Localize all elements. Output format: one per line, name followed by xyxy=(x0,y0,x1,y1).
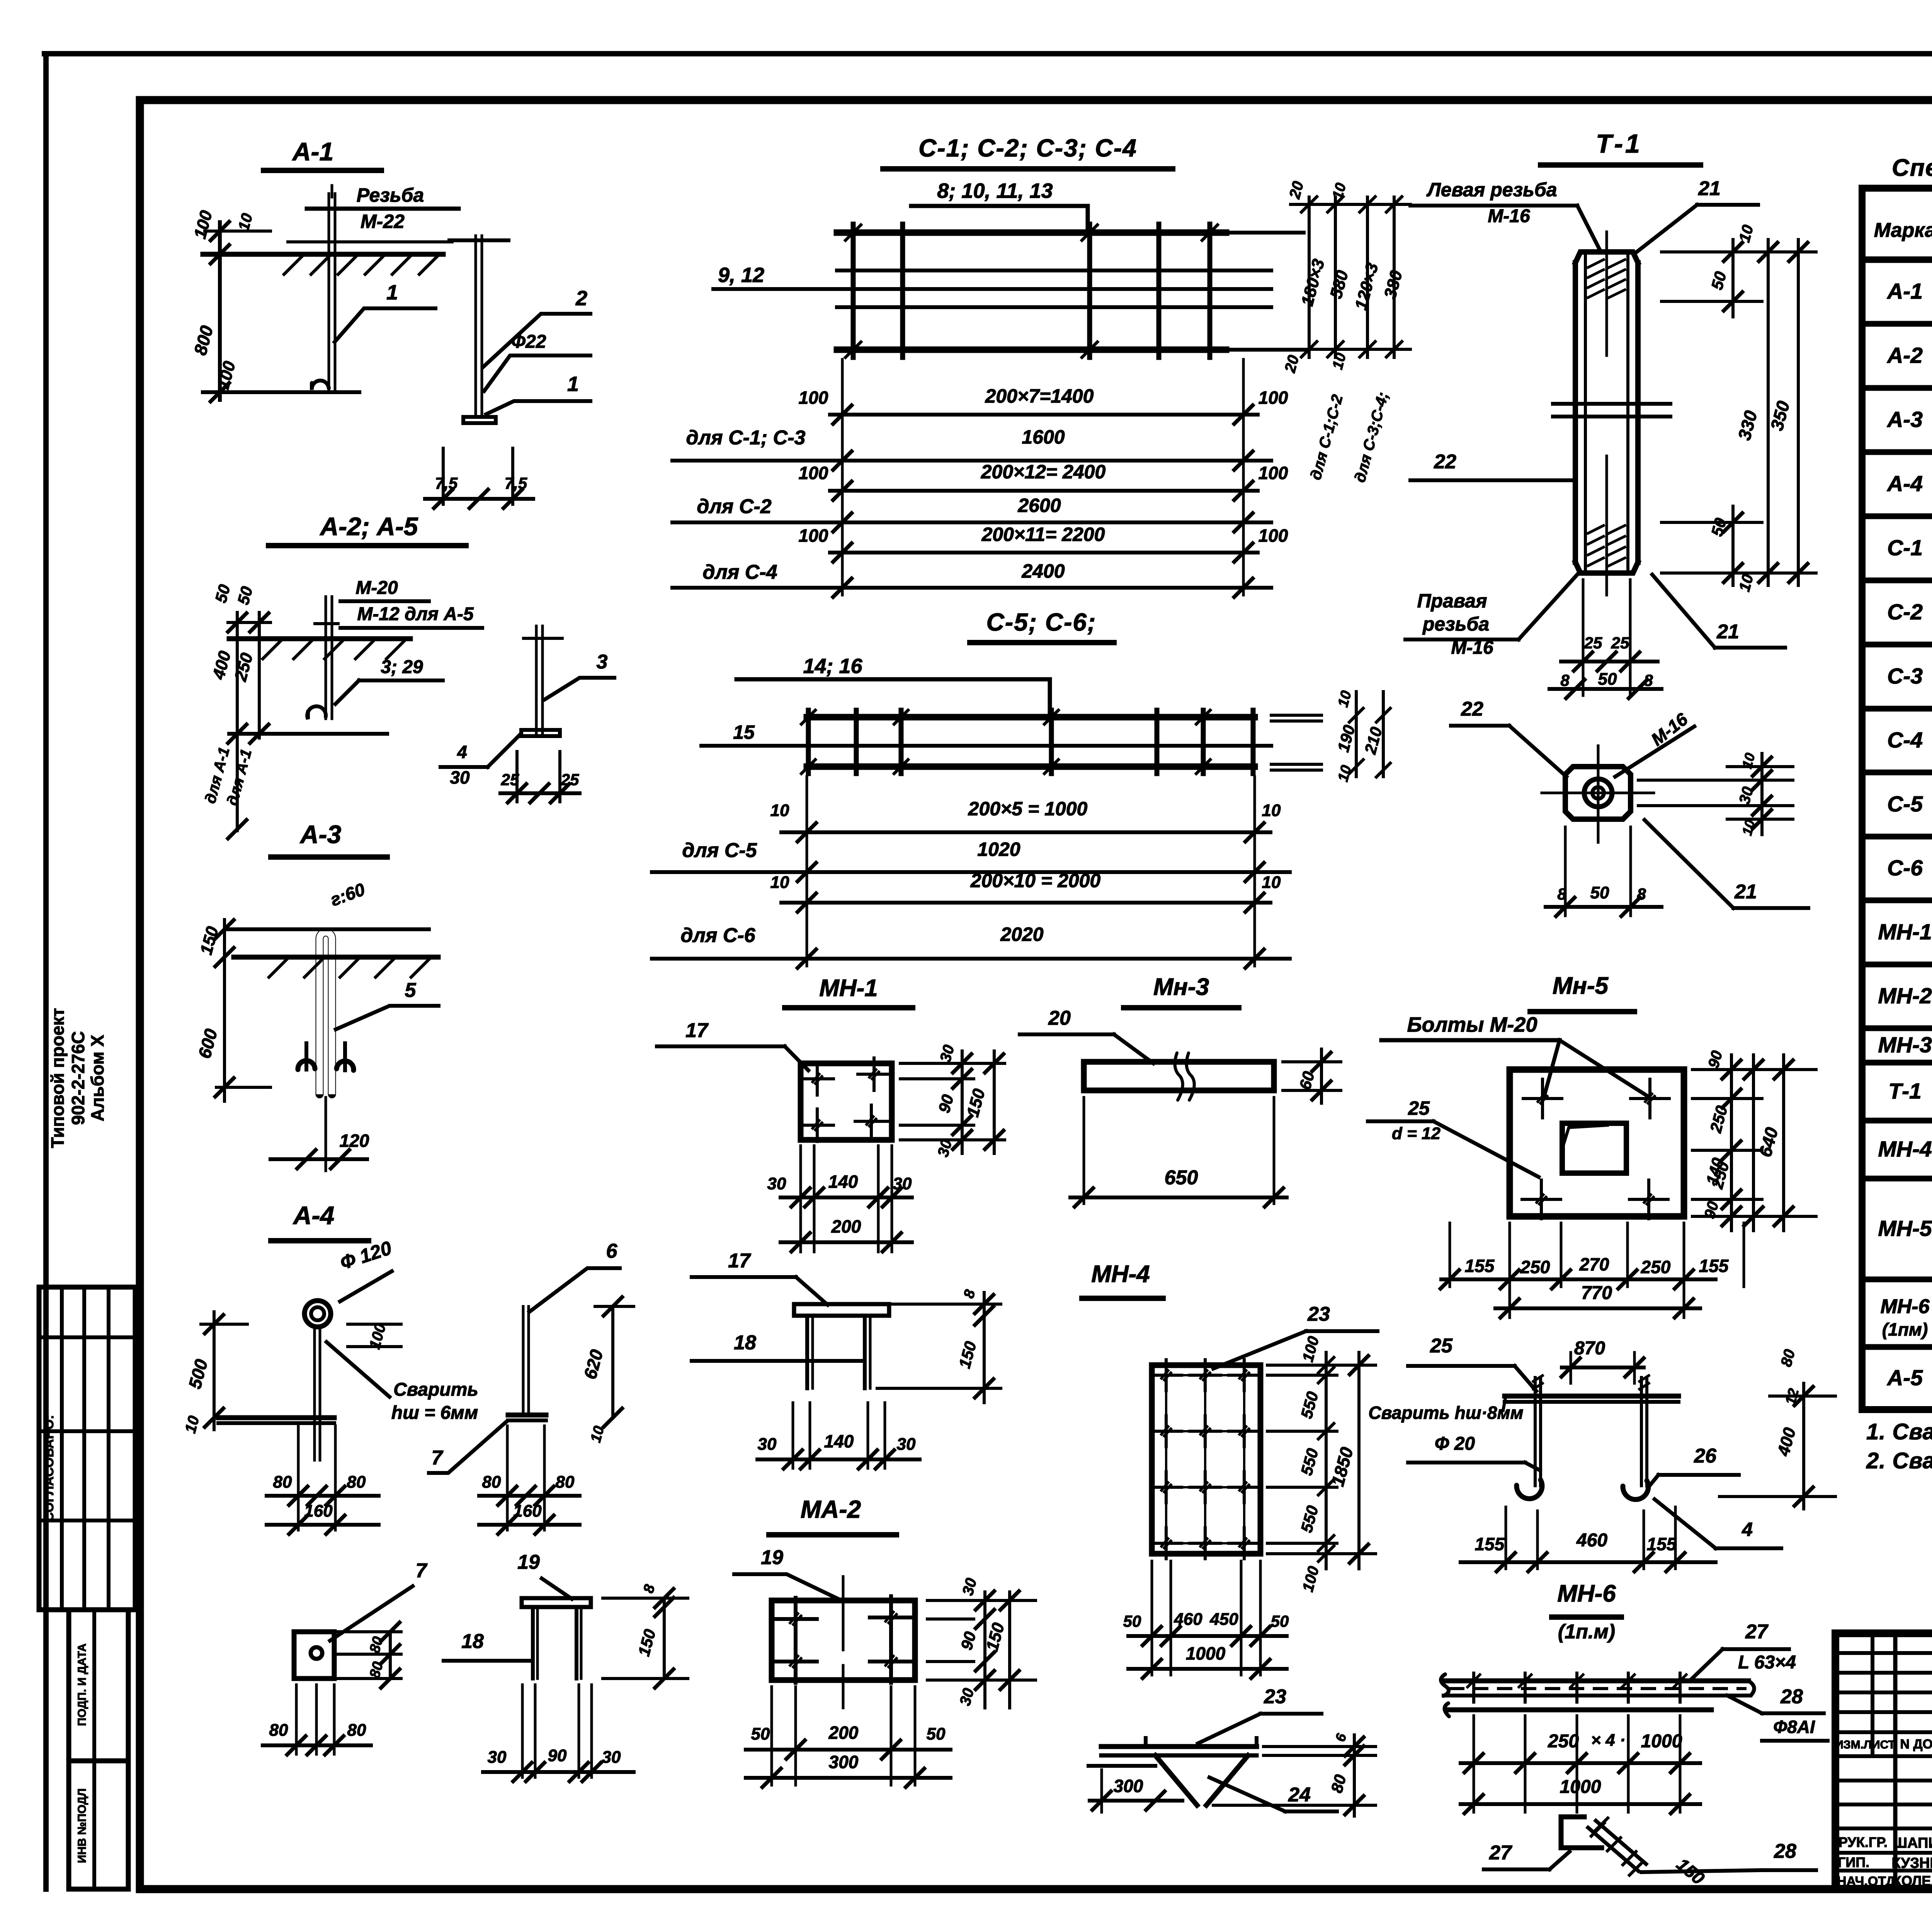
svg-text:МН-6: МН-6 xyxy=(1880,1296,1930,1318)
MN-6 label L63x4 xyxy=(1738,1652,1796,1673)
rod pos2 leader 1 xyxy=(486,372,590,414)
svg-text:Сварить: Сварить xyxy=(393,1379,478,1400)
detail MN-3 title xyxy=(1124,974,1239,1008)
svg-text:100: 100 xyxy=(1259,526,1288,546)
svg-text:3; 29: 3; 29 xyxy=(381,657,423,677)
svg-text:160: 160 xyxy=(304,1502,333,1520)
detail A-2 A-5 title xyxy=(269,512,466,546)
A-3 bottom hooks pos4 xyxy=(298,1043,354,1070)
svg-text:Правая: Правая xyxy=(1417,590,1487,612)
svg-text:резьба: резьба xyxy=(1422,613,1489,635)
MN-5 bottom dims xyxy=(1440,1223,1744,1318)
MN-6 leader 27 xyxy=(1692,1621,1789,1679)
detail A-4 title xyxy=(271,1201,369,1241)
section 23 24 right dims xyxy=(1213,1731,1376,1816)
svg-text:10: 10 xyxy=(1330,181,1350,201)
svg-text:200×10 = 2000: 200×10 = 2000 xyxy=(970,870,1101,891)
detail MA-2 title xyxy=(769,1495,896,1535)
svg-text:10: 10 xyxy=(1736,572,1757,593)
svg-text:770: 770 xyxy=(1581,1283,1612,1303)
svg-text:20: 20 xyxy=(1048,1007,1071,1029)
girder dim row dlya C-2 2600 xyxy=(672,495,1271,532)
svg-text:(1пм): (1пм) xyxy=(1882,1320,1928,1340)
svg-text:120×3: 120×3 xyxy=(1351,261,1382,312)
svg-text:80: 80 xyxy=(1777,1347,1798,1368)
svg-text:30: 30 xyxy=(937,1043,957,1064)
rod3 dim 25 25 xyxy=(500,752,580,803)
svg-text:Ф 20: Ф 20 xyxy=(1435,1434,1475,1454)
plate7 dims right xyxy=(367,1622,400,1688)
svg-text:23: 23 xyxy=(1307,1303,1330,1325)
svg-text:21: 21 xyxy=(1734,881,1757,903)
T1 label levaya rezba xyxy=(1410,179,1600,251)
plate7 dims bottom xyxy=(263,1685,371,1755)
T1 turnbuckle body xyxy=(1553,232,1670,595)
svg-text:300: 300 xyxy=(1114,1776,1143,1796)
MN-4 plate pos23 xyxy=(1151,1360,1260,1559)
svg-text:250: 250 xyxy=(231,651,257,684)
detail MN-5 title xyxy=(1530,973,1634,1012)
MN-1 section bench bottom dims xyxy=(757,1403,920,1469)
MN-3 right dim 60 xyxy=(1283,1049,1341,1103)
svg-text:140: 140 xyxy=(828,1172,858,1192)
svg-text:Левая резьба: Левая резьба xyxy=(1426,179,1557,201)
svg-text:ИНВ №ПОДЛ: ИНВ №ПОДЛ xyxy=(76,1788,88,1863)
hooks leader 4 xyxy=(1655,1499,1781,1548)
svg-text:С-1; С-2; С-3; С-4: С-1; С-2; С-3; С-4 xyxy=(918,134,1137,162)
svg-text:М-22: М-22 xyxy=(361,211,405,232)
svg-text:Сварить hш·8мм: Сварить hш·8мм xyxy=(1368,1403,1523,1423)
svg-text:155: 155 xyxy=(1465,1256,1495,1276)
section 23 24 leader 24 xyxy=(1209,1777,1337,1811)
T1 nut right dims xyxy=(1638,751,1793,837)
svg-text:ИЗМ.ЛИСТ: ИЗМ.ЛИСТ xyxy=(1835,1738,1895,1751)
A-4 base bar pos7 xyxy=(218,1418,334,1423)
A-2 thread labels xyxy=(340,578,482,628)
MN-4 right dims xyxy=(1267,1335,1376,1594)
svg-text:МН-3: МН-3 xyxy=(1878,1033,1932,1058)
svg-text:200×5 = 1000: 200×5 = 1000 xyxy=(968,798,1088,820)
svg-text:8: 8 xyxy=(1557,885,1566,903)
svg-text:hш = 6мм: hш = 6мм xyxy=(391,1403,478,1423)
svg-text:А-1: А-1 xyxy=(292,137,333,166)
A-4 weld note xyxy=(327,1342,478,1423)
detail A-1 thread label xyxy=(307,184,459,232)
detail A-3 title xyxy=(271,820,387,857)
A-2 leader 3;29 xyxy=(335,657,443,704)
svg-text:(1п.м): (1п.м) xyxy=(1558,1621,1615,1643)
svg-text:550: 550 xyxy=(1297,1503,1322,1534)
svg-text:25: 25 xyxy=(1584,634,1602,652)
svg-text:80: 80 xyxy=(347,1473,366,1492)
svg-text:150: 150 xyxy=(197,924,222,957)
svg-text:А-2; А-5: А-2; А-5 xyxy=(319,512,418,541)
svg-text:4: 4 xyxy=(1742,1519,1753,1540)
svg-text:1000: 1000 xyxy=(1186,1643,1226,1663)
svg-text:30: 30 xyxy=(893,1174,912,1193)
section 23 24 plates xyxy=(1088,1738,1257,1805)
detail rod pos 6 sketch xyxy=(508,1306,546,1420)
svg-text:150: 150 xyxy=(634,1627,659,1658)
svg-text:21: 21 xyxy=(1698,177,1721,200)
svg-text:100: 100 xyxy=(1299,1565,1323,1594)
svg-text:18: 18 xyxy=(734,1332,756,1354)
MN-6 angle profile xyxy=(1441,1673,1754,1716)
MN-1 section bench leader 18 xyxy=(692,1332,865,1361)
svg-text:550: 550 xyxy=(1297,1389,1322,1420)
detail plate pos 7 xyxy=(294,1632,401,1679)
svg-text:100: 100 xyxy=(1299,1335,1323,1364)
notes about welding xyxy=(1866,1419,1932,1473)
svg-text:100: 100 xyxy=(799,463,828,483)
svg-text:7: 7 xyxy=(416,1560,428,1582)
MN-4 leader 23 xyxy=(1213,1303,1378,1369)
rod pos2 dim 75 75 xyxy=(425,448,533,508)
svg-text:10: 10 xyxy=(1262,873,1281,892)
rod pos2 phi22 label xyxy=(484,332,590,391)
svg-text:400: 400 xyxy=(209,649,235,682)
title block: outer box xyxy=(1835,1633,1932,1889)
detail MN-4 title xyxy=(1082,1261,1163,1298)
svg-text:250: 250 xyxy=(1520,1257,1550,1277)
detail rod pos 2 xyxy=(449,236,509,423)
hooks bottom dims xyxy=(1461,1507,1716,1571)
svg-text:МН-4: МН-4 xyxy=(1878,1137,1932,1162)
svg-text:1020: 1020 xyxy=(977,838,1020,860)
MN-6 corner section detail xyxy=(1561,1817,1646,1875)
A-4 dims left xyxy=(182,1312,247,1435)
svg-text:30: 30 xyxy=(488,1748,507,1767)
svg-text:60: 60 xyxy=(1296,1070,1318,1092)
svg-text:90: 90 xyxy=(935,1093,957,1115)
svg-text:120: 120 xyxy=(340,1131,369,1151)
svg-text:Резьба: Резьба xyxy=(357,184,424,206)
T1 leader 21 top xyxy=(1635,177,1758,253)
svg-text:МН-1: МН-1 xyxy=(819,975,878,1002)
svg-text:180×3: 180×3 xyxy=(1298,257,1328,308)
stamp: soglasovano table xyxy=(39,1287,135,1610)
svg-text:300: 300 xyxy=(829,1752,859,1772)
hook rods pos26 xyxy=(1517,1376,1649,1500)
svg-text:160: 160 xyxy=(513,1502,542,1520)
svg-text:150: 150 xyxy=(1673,1854,1709,1888)
detail rod pos 3 sketch xyxy=(521,626,562,736)
svg-text:8; 10, 11, 13: 8; 10, 11, 13 xyxy=(937,179,1053,202)
svg-text:150: 150 xyxy=(963,1087,989,1119)
MN-5 leader 25 d12 xyxy=(1368,1097,1539,1177)
girder label 8 10 11 13 xyxy=(911,179,1088,233)
svg-text:100: 100 xyxy=(1259,463,1288,483)
MN-6 dim 250x4=1000 xyxy=(1461,1716,1700,1812)
svg-text:Ф22: Ф22 xyxy=(511,332,546,352)
A-4 dims small right xyxy=(348,1322,401,1351)
hooks leader 26 xyxy=(1648,1445,1739,1488)
svg-text:10: 10 xyxy=(770,801,789,820)
MN-1 section bench plate pos17 xyxy=(794,1304,889,1388)
A-4 rod pos6 xyxy=(315,1327,320,1460)
A-2 rod pos3 xyxy=(307,597,332,719)
svg-text:5: 5 xyxy=(405,979,417,1002)
svg-text:200: 200 xyxy=(831,1216,861,1236)
T1 bottom dims 25 25 8 50 8 xyxy=(1549,580,1662,698)
detail C-5 C-6 title xyxy=(970,608,1114,643)
svg-text:2400: 2400 xyxy=(1021,560,1065,582)
rod6 leader 6 xyxy=(529,1240,620,1312)
svg-text:С-1: С-1 xyxy=(1887,536,1923,560)
MN-3 bottom dim 650 xyxy=(1070,1097,1287,1207)
svg-text:250: 250 xyxy=(1706,1104,1731,1135)
svg-text:г:60: г:60 xyxy=(328,879,368,910)
svg-text:50: 50 xyxy=(751,1725,770,1743)
svg-text:1850: 1850 xyxy=(1327,1445,1357,1488)
svg-text:50: 50 xyxy=(1590,883,1609,902)
c56 label 15 xyxy=(733,721,755,743)
MN-5 plate pos25 xyxy=(1510,1070,1684,1219)
detail A-1 title xyxy=(264,137,381,170)
girder dim row dlya C-1 C-3 1600 xyxy=(672,426,1271,470)
A-2 ground xyxy=(229,624,410,659)
A-3 z60 label xyxy=(328,879,368,910)
A-2 dim chains xyxy=(202,583,387,838)
svg-text:2: 2 xyxy=(575,287,587,310)
stamp: podp i data strip xyxy=(69,1610,128,1761)
svg-text:× 4 ·: × 4 · xyxy=(1591,1731,1625,1750)
svg-text:460: 460 xyxy=(1173,1610,1202,1629)
svg-text:80: 80 xyxy=(482,1473,501,1492)
MA-2 plate pos19 xyxy=(772,1577,915,1708)
T1 leader 21 bottom xyxy=(1652,575,1785,648)
svg-text:460: 460 xyxy=(1576,1530,1607,1551)
c56 dim row 200x10=2000 xyxy=(770,870,1281,912)
svg-text:2020: 2020 xyxy=(1000,923,1043,945)
svg-text:для С-6: для С-6 xyxy=(680,924,755,947)
svg-text:80: 80 xyxy=(269,1721,288,1740)
svg-text:КУЗНЕЦОВ: КУЗНЕЦОВ xyxy=(1891,1855,1932,1871)
svg-text:100: 100 xyxy=(190,208,216,241)
A-4 bottom dims xyxy=(267,1426,379,1534)
hooks dim 870 xyxy=(1561,1338,1644,1383)
rod6 bottom dims xyxy=(479,1426,580,1534)
svg-text:С-2: С-2 xyxy=(1887,600,1923,624)
detail A-1 anchor rod pos1 xyxy=(312,185,335,390)
svg-text:620: 620 xyxy=(580,1347,607,1381)
svg-text:80: 80 xyxy=(556,1473,575,1492)
svg-text:А-1: А-1 xyxy=(1886,279,1923,304)
svg-text:30: 30 xyxy=(897,1435,916,1454)
A-3 leader 5 xyxy=(336,979,439,1029)
svg-text:50: 50 xyxy=(1708,516,1730,538)
svg-text:для С-1;С-2: для С-1;С-2 xyxy=(1307,393,1346,482)
T1 nut label M-16 xyxy=(1615,709,1694,777)
svg-text:МА-2: МА-2 xyxy=(801,1495,861,1523)
MN-1 leader 17 xyxy=(657,1019,808,1070)
title block: left revision table xyxy=(1835,1633,1932,1889)
svg-text:НАЧ.ОТД.: НАЧ.ОТД. xyxy=(1837,1874,1899,1889)
svg-text:270: 270 xyxy=(1579,1254,1609,1274)
MN-5 label bolty M-20 xyxy=(1381,1013,1648,1097)
bench leader 19 xyxy=(517,1551,572,1599)
svg-text:18: 18 xyxy=(461,1630,484,1653)
svg-text:7,5: 7,5 xyxy=(435,474,458,492)
svg-text:21: 21 xyxy=(1716,621,1739,643)
svg-text:20: 20 xyxy=(1286,179,1307,201)
c56 dim row dlya C-5 1020 xyxy=(652,838,1290,881)
svg-text:50: 50 xyxy=(234,585,256,607)
svg-text:870: 870 xyxy=(1574,1338,1605,1359)
svg-text:90: 90 xyxy=(957,1630,979,1652)
svg-text:50: 50 xyxy=(1123,1612,1141,1630)
svg-text:400: 400 xyxy=(1774,1425,1800,1458)
girder right dim chains xyxy=(1281,179,1410,484)
svg-text:для С-1; С-3: для С-1; С-3 xyxy=(686,427,806,449)
hooks right dims xyxy=(1719,1347,1835,1509)
svg-text:50: 50 xyxy=(1708,270,1730,292)
detail MN-6 title xyxy=(1552,1580,1621,1643)
svg-text:9, 12: 9, 12 xyxy=(718,264,764,287)
svg-text:27: 27 xyxy=(1745,1621,1769,1643)
T1 right dims xyxy=(1662,223,1816,593)
MN-6 leader 28 xyxy=(1727,1685,1828,1741)
svg-text:2600: 2600 xyxy=(1017,495,1061,516)
svg-text:М-12 для А-5: М-12 для А-5 xyxy=(357,604,474,624)
girder C1-C4 cross bars xyxy=(845,224,1218,357)
svg-text:Марка: Марка xyxy=(1874,219,1932,241)
svg-text:10: 10 xyxy=(1262,801,1281,820)
svg-text:7: 7 xyxy=(432,1447,444,1469)
svg-text:3: 3 xyxy=(597,651,608,673)
svg-text:для С-4: для С-4 xyxy=(702,561,777,583)
svg-text:19: 19 xyxy=(517,1551,540,1573)
svg-text:1: 1 xyxy=(567,372,579,396)
svg-text:150: 150 xyxy=(955,1339,980,1370)
svg-text:500: 500 xyxy=(184,1357,211,1391)
svg-text:50: 50 xyxy=(1598,670,1617,689)
svg-text:12: 12 xyxy=(1782,1387,1803,1407)
svg-text:17: 17 xyxy=(685,1019,709,1042)
svg-text:155: 155 xyxy=(1647,1534,1677,1554)
svg-text:10: 10 xyxy=(1739,818,1758,837)
T1 leader 22 xyxy=(1410,451,1575,480)
svg-text:Мн-3: Мн-3 xyxy=(1153,974,1209,1000)
svg-text:80: 80 xyxy=(273,1473,292,1492)
svg-text:6: 6 xyxy=(1332,1731,1350,1743)
bench dims bottom xyxy=(483,1685,634,1781)
svg-text:50: 50 xyxy=(211,583,233,605)
svg-text:8: 8 xyxy=(1560,671,1570,689)
rod6 leader 7 xyxy=(429,1421,507,1473)
svg-text:550: 550 xyxy=(1297,1446,1322,1477)
MN-3 bar pos20 xyxy=(1084,1053,1274,1100)
svg-text:А-4: А-4 xyxy=(293,1201,334,1230)
T1 nut leader 22 xyxy=(1451,698,1566,777)
svg-text:100: 100 xyxy=(1259,388,1288,408)
svg-text:ПОДП. И ДАТА: ПОДП. И ДАТА xyxy=(76,1643,88,1726)
svg-text:250: 250 xyxy=(1641,1257,1671,1277)
girder C1-C4 chords xyxy=(713,233,1304,350)
svg-text:100: 100 xyxy=(799,388,828,408)
table: header texts xyxy=(1874,197,1932,255)
svg-text:155: 155 xyxy=(1699,1256,1729,1276)
detail MN-1 title xyxy=(785,975,913,1008)
svg-text:1000: 1000 xyxy=(1560,1777,1601,1797)
svg-text:10: 10 xyxy=(1736,223,1757,244)
girder dim row dlya C-4 2400 xyxy=(672,560,1271,597)
svg-text:140: 140 xyxy=(824,1431,854,1451)
svg-text:МН-4: МН-4 xyxy=(1091,1261,1150,1287)
svg-text:50: 50 xyxy=(1271,1612,1289,1630)
c56 cross bars xyxy=(801,710,1253,774)
svg-text:1. Сварку производить элект: 1. Сварку производить электродами типа Э… xyxy=(1866,1419,1932,1444)
rod3 leader 3 xyxy=(545,651,614,699)
A-3 hairpin rod pos5 xyxy=(320,932,332,1094)
svg-text:650: 650 xyxy=(1165,1167,1198,1189)
bench leader 18 xyxy=(444,1630,531,1661)
MA-2 dims bottom xyxy=(746,1687,951,1787)
MN-5 right dims xyxy=(1692,1049,1816,1231)
svg-text:30: 30 xyxy=(450,767,470,787)
svg-text:30: 30 xyxy=(767,1174,786,1193)
svg-text:А-2: А-2 xyxy=(1886,343,1923,368)
svg-text:10: 10 xyxy=(1335,764,1355,784)
svg-text:КОЛЕАВИН: КОЛЕАВИН xyxy=(1893,1873,1932,1889)
detail A-1 ground line xyxy=(203,254,443,274)
svg-text:МН-1: МН-1 xyxy=(1878,920,1932,944)
svg-text:17: 17 xyxy=(728,1250,751,1272)
svg-text:22: 22 xyxy=(1434,451,1456,473)
svg-text:2. Сварные швы hш = 6мм.: 2. Сварные швы hш = 6мм. xyxy=(1866,1448,1932,1473)
girder dim row 200x11=2200 xyxy=(799,524,1288,562)
detail C-1 C-2 C-3 C-4 title xyxy=(883,134,1173,169)
svg-text:Мн-5: Мн-5 xyxy=(1553,973,1609,999)
table: rows xyxy=(1862,263,1932,1406)
svg-text:МН-2: МН-2 xyxy=(1878,984,1932,1009)
svg-text:для С-2: для С-2 xyxy=(697,495,771,518)
svg-text:902-2-276С: 902-2-276С xyxy=(68,1031,88,1125)
bench dims right xyxy=(603,1582,688,1688)
svg-text:С-4: С-4 xyxy=(1887,728,1923,753)
svg-text:10: 10 xyxy=(182,1414,202,1435)
svg-text:80: 80 xyxy=(347,1721,366,1740)
svg-text:90: 90 xyxy=(548,1746,567,1765)
svg-text:7,5: 7,5 xyxy=(505,474,527,492)
svg-text:Т-1: Т-1 xyxy=(1888,1079,1922,1104)
svg-text:800: 800 xyxy=(190,323,217,357)
svg-text:С-5; С-6;: С-5; С-6; xyxy=(986,608,1097,636)
svg-text:А-3: А-3 xyxy=(299,820,341,849)
svg-text:N ДОКУМ.: N ДОКУМ. xyxy=(1900,1737,1932,1752)
svg-text:28: 28 xyxy=(1780,1685,1803,1708)
MN-6 section leader 27 xyxy=(1484,1842,1570,1869)
svg-text:580: 580 xyxy=(1327,268,1352,301)
svg-text:24: 24 xyxy=(1288,1784,1311,1806)
svg-text:10: 10 xyxy=(1335,689,1355,709)
A-4 phi120 label xyxy=(337,1237,394,1301)
MN-6 section leader 28 150 xyxy=(1641,1840,1816,1889)
svg-text:100: 100 xyxy=(214,359,239,391)
svg-text:МН-6: МН-6 xyxy=(1557,1580,1616,1607)
svg-text:Болты М-20: Болты М-20 xyxy=(1407,1013,1537,1036)
stamp: album label (rotated) xyxy=(48,1008,107,1148)
c56 right rotated dims xyxy=(1334,689,1390,784)
MN-1 right dims xyxy=(900,1043,1005,1158)
detail bench pos 18 19 xyxy=(522,1598,591,1679)
svg-text:РУК.ГР.: РУК.ГР. xyxy=(1838,1834,1888,1850)
MN-6 dim 1000 xyxy=(1461,1777,1700,1813)
svg-text:15: 15 xyxy=(733,721,755,743)
girder dim row 200x7=1400 xyxy=(799,359,1288,595)
plate7 leader xyxy=(330,1560,428,1641)
svg-text:4: 4 xyxy=(457,742,467,762)
